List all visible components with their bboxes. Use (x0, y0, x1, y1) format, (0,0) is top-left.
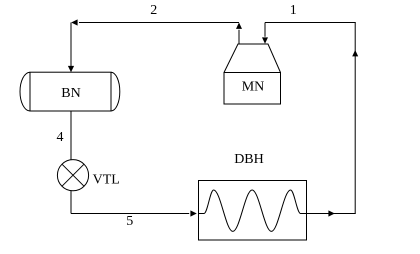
svg-text:1: 1 (290, 3, 297, 18)
svg-text:2: 2 (150, 3, 157, 18)
svg-text:BN: BN (61, 86, 80, 101)
svg-text:MN: MN (242, 80, 265, 95)
svg-text:5: 5 (126, 214, 133, 229)
svg-text:DBH: DBH (234, 152, 264, 167)
svg-text:VTL: VTL (93, 173, 120, 188)
svg-text:4: 4 (57, 130, 64, 145)
